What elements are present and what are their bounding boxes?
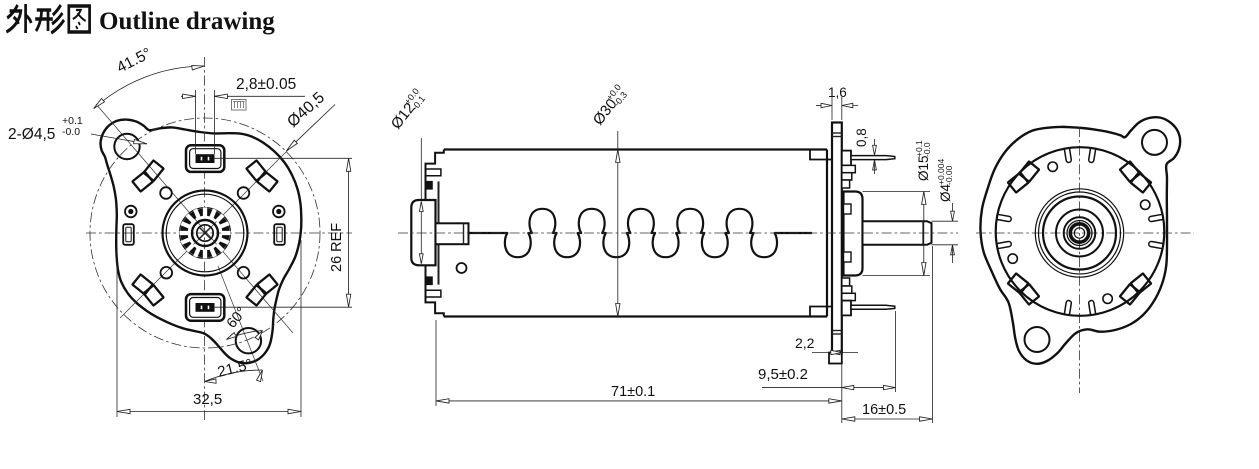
vent slot pair at 225deg bbox=[131, 273, 164, 306]
front diagonal centerline 45deg bbox=[120, 146, 292, 318]
front diagonal centerline 135deg through mounting hole bbox=[96, 104, 293, 333]
small hole below stub bbox=[457, 263, 467, 273]
Ø12 dimension inside boss bbox=[420, 204, 422, 262]
svg-text:71±0.1: 71±0.1 bbox=[611, 384, 655, 400]
rear small hole bbox=[1048, 162, 1057, 171]
svg-text:2-Ø4,5: 2-Ø4,5 bbox=[8, 126, 55, 143]
front stator circle bbox=[180, 208, 231, 259]
svg-text:Ø4: Ø4 bbox=[938, 183, 953, 202]
dimension Ø15 ext bbox=[863, 191, 931, 193]
dimension 32,5 line bbox=[117, 411, 301, 413]
rear small hole bbox=[1008, 254, 1017, 263]
vent slot pair at 315deg bbox=[245, 273, 278, 306]
rear rim slot 279deg bbox=[1088, 300, 1095, 314]
small through hole bbox=[238, 187, 250, 199]
rear bearing hub Ø15 bbox=[844, 192, 863, 276]
svg-text:26 REF: 26 REF bbox=[329, 223, 345, 272]
leader 2-Ø4,5 bbox=[91, 134, 147, 144]
dimension 2,2 line bbox=[812, 352, 858, 354]
dimension 0,8 arrows bbox=[874, 139, 876, 153]
output shaft Ø4 bbox=[863, 221, 932, 245]
rear vent slot pair 135deg bbox=[1007, 160, 1040, 193]
hub tab upper bbox=[844, 204, 852, 214]
left cap crimp top bbox=[426, 150, 444, 201]
front view motor body outline bbox=[101, 120, 302, 364]
front centerline to lower mounting hole 21.5deg bbox=[218, 266, 263, 381]
svg-text:Ø15: Ø15 bbox=[916, 155, 931, 181]
svg-text:32,5: 32,5 bbox=[193, 391, 222, 408]
rear boss ring r36.5 bbox=[1043, 197, 1116, 270]
svg-text:9,5±0.2: 9,5±0.2 bbox=[758, 366, 808, 383]
mounting hole 2-Ø4,5 top-left bbox=[114, 134, 139, 159]
rear rim slot 81deg bbox=[1088, 149, 1095, 163]
vent slot pair at 45deg bbox=[245, 159, 278, 192]
armature spring squiggle bbox=[469, 209, 813, 257]
shaft tip extension down bbox=[932, 246, 934, 423]
rear view vertical centerline bbox=[1079, 127, 1081, 393]
rear can rim circle bbox=[996, 147, 1165, 316]
dimension Ø4 line bbox=[952, 203, 954, 221]
side view body right face bbox=[826, 150, 828, 317]
bottom terminal connector bbox=[186, 294, 224, 321]
top terminal connector bbox=[186, 145, 224, 172]
front inner ring bbox=[192, 220, 218, 246]
rear rim slot -10deg bbox=[1148, 241, 1162, 248]
label Ø12 rotated bbox=[386, 86, 428, 133]
rear rim slot 190deg bbox=[997, 241, 1011, 248]
rear vent slot pair 315deg bbox=[1119, 272, 1152, 305]
svg-text:1,6: 1,6 bbox=[828, 85, 847, 100]
rear ring r23.5 bbox=[1056, 210, 1103, 257]
dimension 26 REF extension lines bbox=[214, 157, 352, 159]
left cap comb finger top bbox=[426, 169, 441, 176]
shaft stub chamfer line bbox=[463, 223, 465, 244]
svg-text:2,8±0.05: 2,8±0.05 bbox=[236, 76, 296, 93]
serration steps bottom bbox=[842, 278, 850, 286]
dimension 9,5 line bbox=[762, 387, 896, 389]
knurl surface symbol bbox=[232, 100, 247, 111]
svg-text:-0.0: -0.0 bbox=[922, 142, 932, 157]
rear view horizontal centerline bbox=[976, 232, 1194, 234]
hub tab lower bbox=[844, 252, 852, 262]
dimension Ø30 line bbox=[617, 131, 619, 317]
right can tab bottom bbox=[810, 307, 832, 317]
svg-text:2,2: 2,2 bbox=[795, 335, 815, 351]
leader Ø40,5 bbox=[287, 105, 336, 151]
label Ø4 rotated bbox=[936, 158, 954, 202]
left cap crimp block bottom bbox=[426, 277, 433, 285]
svg-text:-0.00: -0.00 bbox=[944, 165, 954, 185]
front shaft circle with cross bbox=[197, 225, 213, 241]
front shaft stub bbox=[436, 223, 469, 244]
pin boss bottom bbox=[842, 301, 851, 316]
front commutator teeth ring bbox=[179, 207, 230, 258]
svg-text:0,8: 0,8 bbox=[854, 128, 869, 147]
left bearing boss Ø12 bbox=[411, 200, 435, 265]
terminal pin top bbox=[851, 156, 895, 160]
dimension 32,5 extension lines bbox=[116, 250, 118, 417]
rear ring r12.5 bbox=[1067, 221, 1092, 246]
front bearing boss inner circle bbox=[166, 194, 244, 272]
side slot bbox=[123, 224, 134, 245]
vent slot pair at 135deg bbox=[131, 159, 164, 192]
dimension 1,6 line bbox=[816, 105, 832, 107]
dimension 60deg arc bbox=[227, 331, 263, 340]
rear boss ring r44 bbox=[1035, 189, 1123, 277]
label Ø15 rotated bbox=[914, 140, 932, 181]
dimension Ø4 ext bbox=[932, 220, 959, 222]
terminal pin bottom bbox=[851, 305, 895, 309]
dimension 21.5deg arc bbox=[205, 370, 263, 382]
shaft tip line bbox=[922, 221, 924, 245]
flange crimp marks bbox=[832, 330, 842, 332]
pin boss top bbox=[842, 151, 851, 166]
small through hole bbox=[160, 187, 172, 199]
rear small hole bbox=[1141, 200, 1150, 209]
dimension 16 line bbox=[842, 418, 933, 420]
front view bolt circle Ø40,5 dash-dot bbox=[90, 118, 320, 348]
mounting hole bottom bbox=[236, 328, 261, 353]
side view horizontal centerline bbox=[398, 232, 958, 234]
svg-text:Outline drawing: Outline drawing bbox=[99, 8, 275, 35]
left cap comb finger bottom bbox=[426, 290, 441, 297]
rear view motor body outline bbox=[980, 117, 1180, 364]
flange extension down bbox=[841, 364, 843, 424]
rear ring r15.8 bbox=[1064, 217, 1096, 249]
Ø12 leader line bbox=[420, 138, 422, 199]
front view horizontal centerline bbox=[86, 232, 352, 234]
side slot bbox=[274, 224, 285, 245]
front bearing boss outer circle bbox=[163, 191, 248, 276]
rear mounting hole bottom-left bbox=[1025, 327, 1050, 352]
front view vertical centerline bbox=[204, 57, 206, 420]
title Chinese 外形图 bbox=[6, 4, 89, 33]
rear shaft hole bbox=[1074, 228, 1084, 238]
left cap crimp block top bbox=[426, 181, 433, 189]
svg-text:-0.0: -0.0 bbox=[62, 126, 80, 138]
label Ø30 rotated bbox=[588, 82, 630, 129]
small through hole bbox=[161, 267, 173, 279]
rear rim slot 261deg bbox=[1064, 300, 1071, 314]
flange plate bbox=[832, 123, 842, 353]
rear boss ring r41 bbox=[1039, 192, 1121, 274]
dimension 2,8 line bbox=[181, 95, 196, 97]
side view body top line bbox=[444, 148, 827, 150]
left cap inner wall bbox=[438, 181, 440, 223]
small through hole bbox=[238, 267, 250, 279]
rear vent slot pair 45deg bbox=[1119, 160, 1152, 193]
rear rim slot 170deg bbox=[997, 214, 1011, 221]
dimension Ø15 line bbox=[923, 192, 925, 276]
rear rim slot 99deg bbox=[1064, 149, 1071, 163]
right can tab top bbox=[810, 150, 832, 160]
pin tip extension bbox=[895, 311, 897, 392]
dimension 1,6 ext bbox=[831, 97, 833, 120]
rear shaft boss ring bbox=[1070, 224, 1088, 242]
screw head with dot bbox=[125, 206, 137, 218]
front shaft cross line 2 bbox=[200, 228, 211, 239]
rear small hole bbox=[1103, 294, 1112, 303]
dimension 41.5deg arc bbox=[94, 66, 205, 109]
flange bottom foot bbox=[829, 353, 842, 364]
screw head with dot bbox=[273, 206, 285, 218]
side view body bottom line bbox=[444, 315, 827, 317]
serration steps top bbox=[842, 165, 856, 172]
rear mounting hole top-right bbox=[1142, 130, 1167, 155]
dimension 26 REF line bbox=[348, 158, 350, 307]
dimension 71 ext-left bbox=[435, 320, 437, 406]
svg-text:16±0.5: 16±0.5 bbox=[862, 402, 906, 418]
front shaft cross line 1 bbox=[200, 228, 211, 239]
rear vent slot pair 225deg bbox=[1007, 272, 1040, 305]
left cap crimp bottom bbox=[426, 266, 444, 317]
dimension 71 line bbox=[436, 400, 842, 402]
dimension 2,8 extension lines bbox=[195, 90, 197, 154]
rear rim slot 10deg bbox=[1148, 214, 1162, 221]
